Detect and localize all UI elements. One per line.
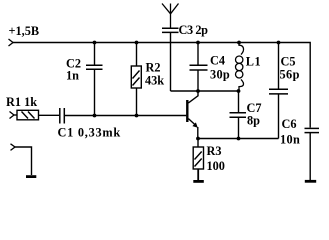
wire +1,5V top rail with right corner down to C6 bbox=[13, 43, 310, 128]
svg-text:30p: 30p bbox=[210, 68, 230, 82]
node dot C5 branch on rail bbox=[277, 41, 281, 45]
svg-text:C4: C4 bbox=[210, 54, 225, 68]
transistor VT1 base bar bbox=[186, 100, 188, 122]
svg-text:C5: C5 bbox=[281, 55, 296, 69]
wire C2 bottom lead bbox=[94, 70, 96, 116]
svg-text:R2: R2 bbox=[146, 61, 161, 75]
wire C7 top lead bbox=[238, 91, 240, 112]
node dot C2 at base wire bbox=[93, 114, 97, 118]
svg-text:100: 100 bbox=[207, 159, 225, 173]
wire R1 to C1 bbox=[39, 114, 60, 116]
svg-text:C3 2p: C3 2p bbox=[179, 23, 209, 37]
svg-text:C6: C6 bbox=[282, 117, 297, 131]
capacitor C6 bbox=[305, 128, 320, 132]
wire R3 top lead bbox=[197, 139, 199, 148]
wire R2 top lead bbox=[136, 43, 138, 67]
resistor R2 bbox=[131, 66, 141, 88]
wire C4 top lead bbox=[197, 43, 199, 66]
svg-text:56p: 56p bbox=[280, 68, 300, 82]
node dot collector on rail bbox=[196, 89, 200, 93]
capacitor C7 bbox=[230, 113, 247, 118]
wire emitter rail bbox=[198, 138, 279, 140]
svg-text:43k: 43k bbox=[145, 74, 164, 88]
capacitor C4 bbox=[190, 65, 208, 70]
wire output terminal to ground bbox=[15, 147, 32, 175]
terminal input +1,5V bbox=[9, 39, 14, 46]
antenna bbox=[162, 4, 179, 29]
svg-text:L1: L1 bbox=[246, 55, 261, 69]
terminal input left bbox=[10, 112, 15, 119]
capacitor C5 bbox=[269, 89, 288, 94]
ground bar output bbox=[26, 175, 36, 178]
capacitor C2 bbox=[86, 65, 103, 69]
wire R3 bottom lead bbox=[197, 169, 199, 180]
node dot C4 branch on rail bbox=[196, 41, 200, 45]
wire C2 top lead bbox=[94, 43, 96, 65]
svg-text:R1 1k: R1 1k bbox=[6, 95, 37, 109]
node dot L1 top on rail bbox=[237, 41, 241, 45]
wire terminal to R1 bbox=[14, 114, 17, 116]
wire C6 bottom lead bbox=[309, 133, 311, 180]
svg-text:C1 0,33mk: C1 0,33mk bbox=[58, 126, 121, 140]
transistor VT1 emitter bbox=[188, 119, 196, 126]
svg-text:1n: 1n bbox=[66, 69, 79, 83]
wire C5 bottom lead down to emitter rail bbox=[278, 94, 280, 138]
svg-text:R3: R3 bbox=[207, 144, 222, 158]
ground bar R3 bbox=[193, 180, 204, 183]
inductor L1 bbox=[236, 43, 244, 92]
node dot R2 branch on rail bbox=[135, 41, 139, 45]
svg-text:8p: 8p bbox=[247, 114, 260, 128]
node dot R2 at base wire bbox=[135, 114, 139, 118]
node dot C7 at emitter rail bbox=[237, 137, 241, 141]
resistor R3 bbox=[193, 147, 203, 169]
wire collector rail antenna to L1 bbox=[171, 90, 239, 92]
wire C4 bottom lead to collector node bbox=[197, 70, 199, 91]
wire C7 bottom lead bbox=[238, 118, 240, 139]
node dot C2 branch on rail bbox=[93, 41, 97, 45]
terminal output bottom left bbox=[11, 144, 16, 151]
wire base wire C1 to transistor base bbox=[65, 115, 187, 117]
transistor VT1 collector bbox=[188, 91, 198, 103]
capacitor C3 bbox=[162, 28, 179, 32]
wire C5 top lead bbox=[278, 43, 280, 89]
transistor VT1 emitter arrowhead bbox=[192, 122, 197, 127]
node dot emitter-R3 bbox=[196, 137, 200, 141]
capacitor C1 bbox=[60, 108, 65, 124]
svg-text:10n: 10n bbox=[280, 133, 300, 147]
wire antenna lead down to collector rail bbox=[170, 33, 172, 91]
ground bar right bbox=[305, 180, 316, 183]
svg-text:+1,5B: +1,5B bbox=[9, 24, 40, 38]
resistor R1 bbox=[17, 110, 39, 120]
wire R2 bottom lead bbox=[136, 88, 138, 116]
wire emitter down bbox=[197, 127, 199, 139]
node dot L1 bottom on rail bbox=[237, 89, 241, 93]
